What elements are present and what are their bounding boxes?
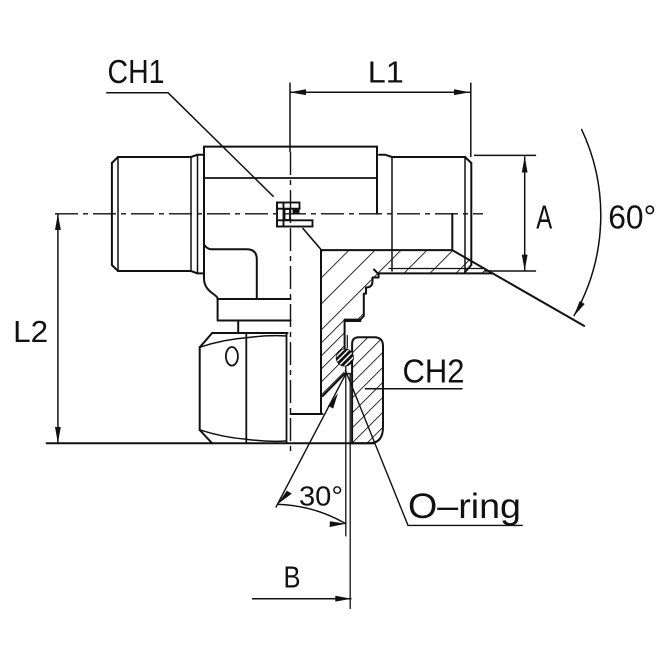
svg-text:B: B xyxy=(284,560,301,595)
svg-text:L2: L2 xyxy=(13,314,48,349)
svg-text:60°: 60° xyxy=(608,199,656,236)
svg-text:A: A xyxy=(536,199,552,236)
svg-text:O–ring: O–ring xyxy=(408,487,521,526)
svg-text:CH1: CH1 xyxy=(108,53,165,90)
svg-text:CH2: CH2 xyxy=(403,353,465,390)
svg-text:30°: 30° xyxy=(299,481,343,512)
svg-text:L1: L1 xyxy=(368,55,404,90)
